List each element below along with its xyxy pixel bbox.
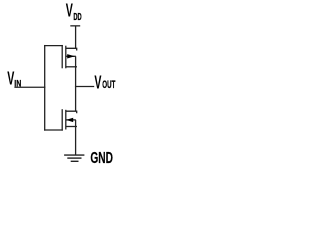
ground symbol — [64, 155, 84, 161]
wire VDD stem — [75, 26, 77, 48]
wire output node vertical (PMOS bulk corner to NMOS drain) — [75, 56, 77, 111]
ground label GND — [90, 150, 113, 167]
transistor Q1 PMOS channel bar — [65, 46, 67, 69]
node VOUT label — [94, 71, 115, 92]
node VIN label — [7, 68, 21, 89]
wire NMOS source to ground — [75, 120, 77, 155]
svg-text:DD: DD — [73, 12, 81, 23]
wire VOUT output — [75, 86, 94, 88]
transistor Q2 NMOS gate bar — [61, 109, 63, 130]
wire VIN input — [14, 86, 45, 88]
transistor Q1 PMOS bulk stub with arrow — [66, 54, 76, 58]
transistor Q2 NMOS drain stub (top, to output) — [66, 111, 78, 113]
svg-text:GND: GND — [90, 150, 113, 167]
wire PMOS gate (top of input bus) — [44, 45, 63, 47]
transistor Q2 NMOS channel bar — [65, 110, 67, 130]
transistor Q2 NMOS bulk stub with arrow — [66, 118, 76, 122]
wire input bus vertical — [44, 45, 46, 131]
transistor Q1 PMOS drain stub (bottom) — [66, 66, 77, 68]
wire NMOS gate (bottom of input bus) — [44, 129, 63, 131]
svg-text:OUT: OUT — [102, 79, 115, 91]
svg-text:V: V — [66, 0, 73, 21]
transistor Q2 NMOS source stub (bottom) — [66, 126, 77, 128]
transistor Q1 PMOS gate bar — [61, 45, 63, 68]
transistor Q1 PMOS source stub (top, to VDD) — [66, 48, 78, 50]
power label VDD — [66, 0, 82, 23]
svg-text:V: V — [94, 71, 101, 92]
power rail VDD T-bar — [70, 25, 80, 27]
